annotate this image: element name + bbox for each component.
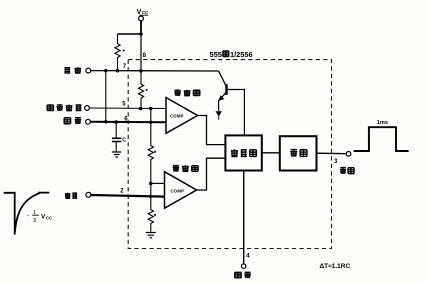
- node Rb bottom (1/3 Vcc ref): [149, 182, 153, 186]
- resistor Rc (lower 5k): [148, 183, 153, 231]
- value mark of R: [123, 50, 125, 52]
- wire ref to COMP2: [151, 182, 165, 184]
- 放电 discharge label: [64, 67, 81, 73]
- svg-text:2: 2: [120, 188, 124, 194]
- IC boundary dashed box: [128, 60, 331, 249]
- ground (below C): [112, 152, 121, 157]
- trigger input waveform: [4, 193, 50, 235]
- 阈值 threshold label: [64, 118, 81, 124]
- wire COMP1 output to flip-flop: [198, 116, 225, 145]
- transistor Q1 emitter arrowhead: [219, 96, 224, 100]
- COMP2 label 比较器: [173, 165, 199, 171]
- svg-text:555: 555: [210, 50, 222, 59]
- flip-flop box 触发器: [225, 135, 261, 170]
- reset terminal: [241, 264, 245, 268]
- 控制电压 control voltage label: [47, 105, 81, 111]
- value mark of Rc: [154, 214, 156, 216]
- wire Vcc down to rail: [140, 21, 142, 34]
- wire control voltage line (pin 5): [90, 107, 166, 110]
- node divider/threshold crossing: [149, 121, 152, 124]
- wire emitter down: [218, 100, 220, 111]
- wire top rail: [118, 33, 142, 35]
- COMP1 label 比较器: [174, 90, 200, 96]
- ground (emitter, arrow style): [216, 111, 222, 116]
- wire output box to terminal (pin 3): [317, 152, 347, 155]
- wire link pin7 to pin6: [105, 71, 107, 122]
- svg-text:ΔT≈1.1RC: ΔT≈1.1RC: [320, 263, 351, 270]
- svg-text:COMP: COMP: [171, 189, 185, 194]
- wire flip-flop to reset terminal (pin 4): [243, 171, 245, 264]
- svg-text:3: 3: [334, 159, 338, 165]
- Vcc terminal: [139, 16, 144, 21]
- value mark of Ra: [146, 89, 148, 91]
- node rail corner: [139, 32, 143, 36]
- svg-text:7: 7: [123, 64, 127, 70]
- svg-text:4: 4: [246, 254, 250, 260]
- Vcc label: [137, 9, 149, 16]
- output pulse waveform: [354, 127, 409, 151]
- threshold terminal: [86, 119, 91, 124]
- discharge terminal: [86, 68, 91, 73]
- node R bottom on discharge line: [116, 69, 120, 73]
- comparator COMP2 (trigger): [165, 172, 197, 209]
- node Ra bottom: [139, 107, 143, 111]
- node divider/trigger crossing: [149, 195, 152, 198]
- svg-text:1/2556: 1/2556: [230, 50, 253, 59]
- svg-text:8: 8: [143, 53, 147, 59]
- transistor Q1 collector diagonal: [219, 71, 227, 87]
- resistor Rb (middle 5k): [148, 109, 153, 184]
- resistor R (external timing resistor): [115, 34, 120, 71]
- svg-text:5: 5: [122, 101, 126, 107]
- node link/threshold: [104, 120, 107, 123]
- svg-text:CC: CC: [46, 215, 52, 220]
- trigger terminal: [86, 192, 91, 197]
- resistor Ra (upper 5k): [138, 71, 143, 109]
- comparator COMP1 (threshold): [166, 98, 198, 134]
- 复位 reset label: [235, 272, 251, 278]
- svg-text:COMP: COMP: [170, 113, 184, 118]
- svg-text:1ms: 1ms: [377, 120, 388, 126]
- svg-text:C: C: [122, 137, 126, 143]
- node capacitor top: [115, 120, 118, 123]
- -1/3 Vcc label: [27, 210, 52, 224]
- svg-text:CC: CC: [142, 10, 149, 15]
- wire trigger line (pin 2): [91, 195, 165, 197]
- node discharge/link: [104, 69, 107, 72]
- control voltage terminal: [85, 106, 90, 111]
- wire threshold line (pin 6): [91, 121, 166, 124]
- svg-text:3: 3: [33, 218, 36, 224]
- wire COMP2 output to flip-flop: [197, 158, 225, 190]
- capacitor C: [112, 122, 121, 152]
- wire flip-flop to output box: [262, 152, 280, 154]
- svg-text:-: -: [27, 214, 29, 220]
- node discharge/Vcc-line crossing: [139, 69, 142, 72]
- 触发 trigger label: [65, 193, 77, 199]
- output box 输出: [280, 136, 317, 170]
- transistor Q1 base bar: [225, 84, 227, 95]
- ground (divider bottom): [146, 233, 156, 238]
- 输出 output label: [340, 168, 354, 174]
- wire Q1 base to flip-flop: [227, 90, 245, 135]
- wire discharge line (pin 7): [91, 70, 219, 72]
- output terminal: [346, 152, 351, 157]
- wire Vcc line into IC (pin 8): [140, 34, 142, 71]
- value mark of Rb: [154, 151, 156, 153]
- node divider jog: [149, 107, 153, 111]
- IC label 555或1/2556: [210, 50, 253, 59]
- transistor Q1 emitter diagonal: [219, 92, 227, 100]
